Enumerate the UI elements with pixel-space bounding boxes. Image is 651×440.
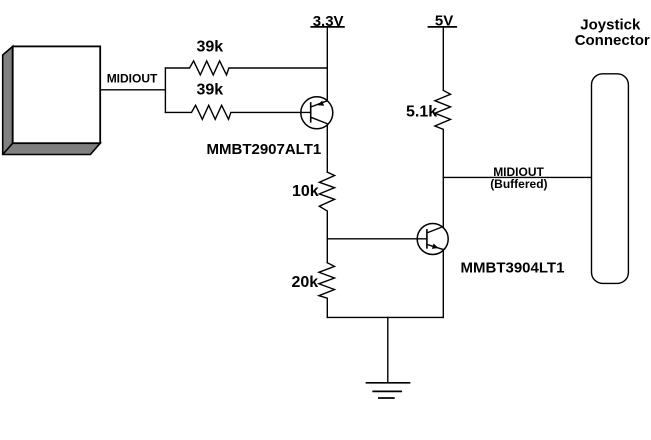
svg-text:39k: 39k (197, 82, 224, 99)
svg-text:Connector: Connector (575, 32, 650, 49)
svg-text:MMBT3904LT1: MMBT3904LT1 (461, 260, 565, 277)
svg-text:10k: 10k (292, 183, 319, 200)
svg-text:(Buffered): (Buffered) (490, 177, 547, 191)
svg-text:MMBT2907ALT1: MMBT2907ALT1 (207, 141, 322, 158)
svg-text:5V: 5V (435, 12, 453, 29)
svg-text:39k: 39k (197, 39, 224, 56)
svg-text:MIDIOUT: MIDIOUT (107, 72, 158, 86)
svg-text:20k: 20k (292, 274, 319, 291)
svg-text:3.3V: 3.3V (313, 13, 344, 30)
svg-text:5.1k: 5.1k (406, 104, 437, 121)
